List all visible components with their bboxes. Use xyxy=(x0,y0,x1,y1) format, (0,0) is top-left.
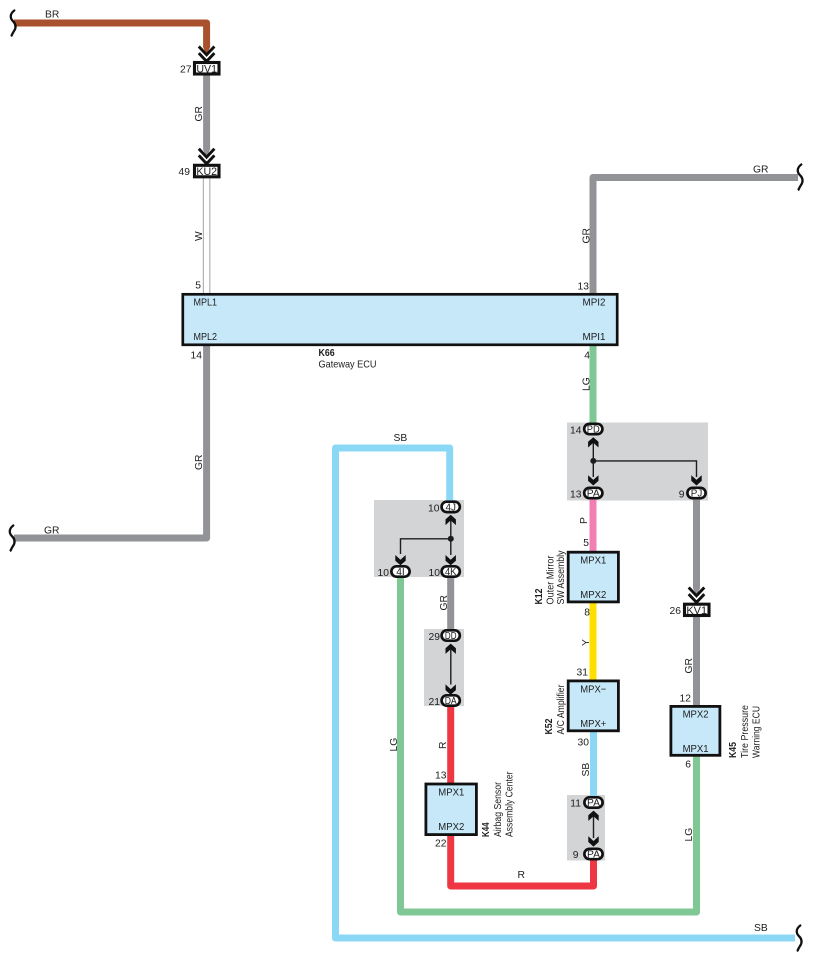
oval DD xyxy=(442,630,460,640)
svg-text:5: 5 xyxy=(583,538,589,549)
svg-text:A/C Amplifier: A/C Amplifier xyxy=(556,684,567,734)
svg-text:31: 31 xyxy=(577,668,589,679)
svg-text:MPX1: MPX1 xyxy=(580,555,606,567)
double chevron into UV1 xyxy=(199,47,215,63)
svg-text:KU2: KU2 xyxy=(196,166,217,178)
svg-text:DD: DD xyxy=(445,631,457,642)
svg-text:10: 10 xyxy=(428,504,440,515)
svg-text:SB: SB xyxy=(581,763,592,777)
wire GR 4K to DD xyxy=(447,577,454,630)
svg-text:14: 14 xyxy=(570,426,582,437)
svg-text:10: 10 xyxy=(378,568,390,579)
svg-text:SB: SB xyxy=(394,433,408,444)
svg-text:MPX2: MPX2 xyxy=(683,709,709,721)
svg-text:27: 27 xyxy=(180,65,192,76)
svg-text:MPX2: MPX2 xyxy=(438,821,464,833)
svg-text:Y: Y xyxy=(581,639,592,646)
svg-text:PA: PA xyxy=(587,798,600,809)
svg-text:DA: DA xyxy=(445,696,457,707)
svg-text:49: 49 xyxy=(179,167,191,178)
svg-text:21: 21 xyxy=(429,697,441,708)
svg-text:MPX+: MPX+ xyxy=(580,718,606,730)
svg-text:GR: GR xyxy=(194,455,205,470)
arrow down into 4I xyxy=(395,555,405,565)
svg-text:R: R xyxy=(518,870,525,881)
double chevron into KV1 xyxy=(689,588,705,604)
svg-text:Assembly Center: Assembly Center xyxy=(505,771,516,837)
connector box UV1 xyxy=(195,63,220,75)
svg-text:MPX2: MPX2 xyxy=(580,589,606,601)
wire GR KV1 to K45 pin12 xyxy=(693,617,700,706)
svg-text:22: 22 xyxy=(435,839,447,850)
svg-text:30: 30 xyxy=(578,738,590,749)
svg-text:MPI1: MPI1 xyxy=(583,332,606,343)
break symbol top-right xyxy=(798,165,803,190)
svg-text:GR: GR xyxy=(753,165,768,176)
oval 4J xyxy=(442,502,460,512)
svg-text:13: 13 xyxy=(578,282,590,293)
svg-text:KV1: KV1 xyxy=(686,605,707,617)
svg-text:K66: K66 xyxy=(319,348,335,359)
svg-text:UV1: UV1 xyxy=(196,63,217,75)
svg-text:K52: K52 xyxy=(544,718,555,734)
break symbol top-left xyxy=(11,11,16,36)
arrow down into PJ xyxy=(691,475,701,485)
wire W KU2 to gateway pin 5 xyxy=(202,178,204,293)
oval PJ xyxy=(687,488,705,498)
oval DA xyxy=(442,695,460,705)
component box K12 Outer Mirror SW Assembly xyxy=(568,552,618,602)
arrow down into DA xyxy=(446,684,456,694)
svg-text:R: R xyxy=(438,742,449,749)
wire BR top-left horizontal xyxy=(14,23,207,47)
svg-text:MPX−: MPX− xyxy=(580,684,606,696)
svg-text:MPL2: MPL2 xyxy=(194,332,218,343)
svg-text:9: 9 xyxy=(573,850,579,861)
svg-text:GR: GR xyxy=(44,526,59,537)
svg-text:SB: SB xyxy=(754,923,768,934)
svg-text:LG: LG xyxy=(684,828,695,842)
shaded relay block box right (PD/PA/PJ) xyxy=(567,423,708,501)
wire R K44 pin22 to PA xyxy=(451,836,594,887)
connector box KV1 xyxy=(685,604,710,615)
wire GR gateway pin14 to left edge xyxy=(14,346,207,539)
svg-text:4: 4 xyxy=(584,351,590,362)
component box K66 Gateway ECU xyxy=(183,294,617,345)
svg-text:GR: GR xyxy=(582,228,593,243)
arrow down into PA xyxy=(588,475,598,485)
wire GR taper into KV1 xyxy=(693,588,701,596)
svg-text:Outer Mirror: Outer Mirror xyxy=(546,555,557,604)
junction dot left xyxy=(448,536,454,542)
svg-text:12: 12 xyxy=(680,694,692,705)
svg-text:PA: PA xyxy=(587,850,600,861)
svg-text:K44: K44 xyxy=(481,822,492,837)
svg-text:W: W xyxy=(194,231,205,241)
svg-text:5: 5 xyxy=(195,281,201,292)
svg-text:K12: K12 xyxy=(534,588,545,604)
svg-text:PA: PA xyxy=(587,489,600,500)
svg-text:6: 6 xyxy=(685,760,691,771)
component box K52 A/C Amplifier xyxy=(568,681,618,731)
thin junction lines left group xyxy=(401,519,451,555)
shaded relay block box left (4J/4I/4K) xyxy=(374,500,464,577)
arrow up into PD xyxy=(588,437,598,447)
svg-text:GR: GR xyxy=(439,595,450,610)
break symbol left-lower xyxy=(10,526,15,551)
svg-text:MPX1: MPX1 xyxy=(438,787,464,799)
oval PD xyxy=(584,424,602,434)
svg-text:PJ: PJ xyxy=(691,489,703,500)
svg-text:K45: K45 xyxy=(728,742,739,758)
oval PA right xyxy=(584,488,602,498)
shaded relay block box (PA/PA) xyxy=(567,795,605,861)
svg-text:LG: LG xyxy=(582,377,593,391)
svg-text:LG: LG xyxy=(389,738,400,752)
svg-text:29: 29 xyxy=(429,632,441,643)
svg-text:GR: GR xyxy=(194,106,205,121)
svg-text:MPL1: MPL1 xyxy=(194,298,218,309)
arrow down into PA bottom xyxy=(588,836,598,846)
break symbol bottom-right xyxy=(797,926,802,951)
arrow up into 4J xyxy=(446,515,456,525)
oval PA bottom xyxy=(584,849,602,859)
wire Y K12 pin8 to K52 pin31 xyxy=(590,603,597,681)
thin line DD-DA xyxy=(450,648,452,685)
svg-text:14: 14 xyxy=(191,351,203,362)
svg-text:11: 11 xyxy=(570,799,581,810)
svg-text:SW Assembly: SW Assembly xyxy=(556,550,567,605)
wire R DA to K44 pin13 xyxy=(447,706,454,784)
svg-text:4J: 4J xyxy=(445,503,456,514)
wire SB K52 pin30 to PA xyxy=(590,732,597,796)
wire P PA to K12 pin5 xyxy=(590,499,597,552)
svg-text:MPI2: MPI2 xyxy=(583,298,606,309)
svg-text:13: 13 xyxy=(570,490,582,501)
svg-text:Warning ECU: Warning ECU xyxy=(752,706,763,758)
oval PA top xyxy=(584,797,602,807)
junction dot right xyxy=(590,458,596,464)
connector box KU2 xyxy=(195,165,220,177)
wire SB long loop left and bottom xyxy=(336,448,796,938)
svg-text:13: 13 xyxy=(435,771,447,782)
arrow up into PA top xyxy=(588,811,598,821)
component box K45 Tire Pressure Warning ECU xyxy=(671,706,720,755)
svg-text:9: 9 xyxy=(679,490,685,501)
wire LG 4I to bottom to K45 pin6 xyxy=(401,577,697,912)
svg-text:10: 10 xyxy=(429,568,441,579)
thin line PA-PA xyxy=(593,816,595,838)
wire LG gateway pin4 to PD xyxy=(590,346,597,425)
wire GR PJ to KV1 xyxy=(693,500,700,589)
svg-text:PD: PD xyxy=(587,425,600,436)
wire BR taper into UV1 xyxy=(203,47,211,55)
svg-text:4K: 4K xyxy=(445,567,457,578)
wire GR UV1 to KU2 xyxy=(203,76,210,150)
arrow down into 4K xyxy=(446,555,456,565)
wire GR taper into KU2 xyxy=(203,149,211,157)
svg-text:GR: GR xyxy=(684,658,695,673)
svg-text:BR: BR xyxy=(45,10,59,21)
oval 4K xyxy=(442,566,460,576)
component box K44 Airbag Sensor Assembly Center xyxy=(426,784,477,835)
svg-text:Airbag Sensor: Airbag Sensor xyxy=(493,782,504,837)
svg-text:Tire Pressure: Tire Pressure xyxy=(740,705,751,758)
thin junction lines right group xyxy=(593,441,696,477)
oval 4I xyxy=(391,566,409,576)
arrow up into DD xyxy=(446,644,456,654)
svg-text:4I: 4I xyxy=(396,567,405,578)
shaded relay block box (DD/DA) xyxy=(424,629,464,706)
double chevron into KU2 xyxy=(199,149,215,165)
wire GR top-right xyxy=(593,178,798,294)
svg-text:P: P xyxy=(579,517,590,524)
svg-text:Gateway ECU: Gateway ECU xyxy=(319,360,377,371)
svg-text:26: 26 xyxy=(670,606,682,617)
svg-text:MPX1: MPX1 xyxy=(683,743,709,755)
svg-text:8: 8 xyxy=(584,608,590,619)
